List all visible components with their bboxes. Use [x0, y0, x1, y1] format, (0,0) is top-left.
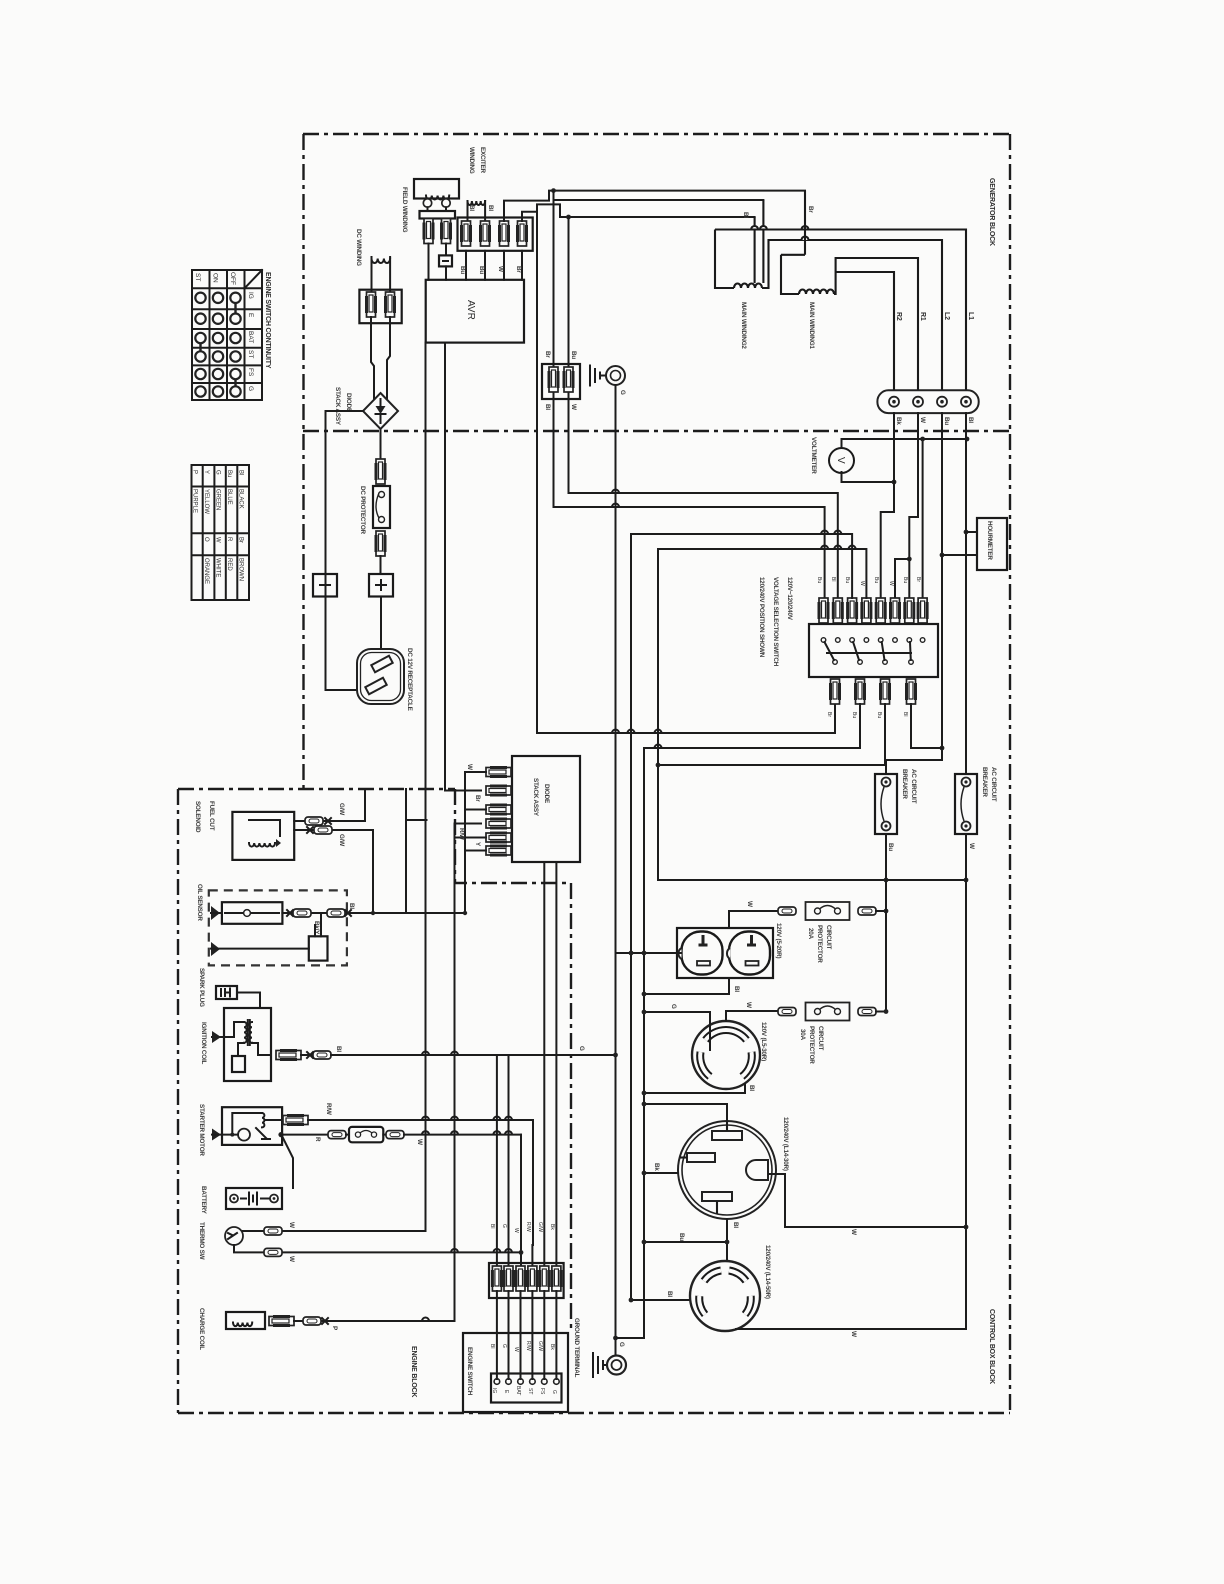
- node pin8: [920, 437, 925, 442]
- charge riser: [455, 824, 482, 1322]
- svg-text:Bu: Bu: [678, 1233, 685, 1241]
- L14-50 right wire: [736, 1328, 966, 1330]
- svg-text:W: W: [288, 1256, 295, 1262]
- wire color legend texts: [192, 470, 244, 584]
- oil sensor dashed box: [209, 890, 347, 965]
- svg-text:Bl: Bl: [733, 986, 740, 992]
- dc protector connector top: [376, 459, 385, 484]
- svg-text:ENGINE SWITCH: ENGINE SWITCH: [466, 1347, 473, 1396]
- wires to diode bridge: [371, 317, 374, 399]
- AC circuit breaker 2: [955, 774, 977, 834]
- DC 12V receptacle: [357, 649, 404, 704]
- bus B: [618, 748, 644, 1338]
- sense wire to selector pin1: [554, 191, 825, 598]
- svg-text:G: G: [619, 390, 626, 395]
- svg-text:ENGINE SWITCH CONTINUITY: ENGINE SWITCH CONTINUITY: [264, 272, 271, 369]
- svg-text:O: O: [203, 537, 209, 542]
- svg-text:Bl: Bl: [748, 1085, 755, 1091]
- sense drop third: [537, 212, 835, 733]
- kill drops: [496, 1055, 498, 1266]
- hourmeter stubs: [966, 531, 977, 533]
- svg-text:DIODE: DIODE: [543, 784, 550, 803]
- node thermo join: [519, 1250, 524, 1255]
- L14-50R top wire: [644, 1242, 727, 1262]
- wire brush2 to polarity box: [445, 244, 447, 256]
- L14-30 top wire: [644, 1104, 727, 1121]
- AC circuit breaker 1: [875, 774, 897, 834]
- engine block border left: [177, 789, 179, 1413]
- svg-text:FUEL CUT: FUEL CUT: [208, 801, 215, 831]
- field winding box: [414, 179, 459, 199]
- svg-text:BREAKER: BREAKER: [981, 767, 988, 797]
- svg-text:30A: 30A: [799, 1029, 806, 1041]
- terminal block box: [491, 1374, 562, 1403]
- svg-text:Bu: Bu: [873, 577, 879, 583]
- svg-text:MAIN WINDING1: MAIN WINDING1: [808, 302, 815, 349]
- svg-text:G/W: G/W: [537, 1341, 543, 1351]
- svg-text:W: W: [513, 1347, 519, 1352]
- diode stack pins: [486, 768, 511, 777]
- connector pin 4: [518, 221, 527, 246]
- svg-text:HOURMETER: HOURMETER: [986, 521, 993, 560]
- svg-text:Bl: Bl: [732, 1222, 739, 1228]
- duplex top wire to protector: [729, 911, 778, 928]
- svg-text:G: G: [618, 1342, 625, 1347]
- circuit protector 30A: [778, 1008, 796, 1016]
- mid connector pin B: [564, 367, 573, 392]
- svg-text:Bu: Bu: [876, 712, 882, 718]
- svg-text:BROWN: BROWN: [238, 558, 244, 581]
- connector wire labels: [489, 1222, 555, 1233]
- svg-text:Bk: Bk: [895, 417, 902, 425]
- svg-text:Bu: Bu: [844, 577, 850, 583]
- svg-text:W: W: [416, 1139, 423, 1145]
- wire hop bumps: [422, 490, 856, 1322]
- svg-text:Br: Br: [474, 795, 481, 802]
- node G merge: [613, 1336, 618, 1341]
- winding2 top edge = L1 wire: [715, 230, 966, 392]
- svg-text:120/240V (L14-50R): 120/240V (L14-50R): [764, 1245, 771, 1299]
- node L2 hourmeter: [940, 553, 945, 558]
- selector lower labels: [826, 712, 908, 718]
- L14-30 right wire: [769, 1174, 966, 1227]
- diode stack bottom drops: [543, 862, 545, 1266]
- starter fuse: [349, 1127, 383, 1142]
- svg-text:VOLTMETER: VOLTMETER: [810, 437, 817, 474]
- AVR second drop: [445, 343, 481, 791]
- voltmeter bottom wire: [842, 472, 895, 482]
- svg-text:W: W: [888, 581, 894, 586]
- svg-text:Bl: Bl: [468, 205, 475, 211]
- 4-pin connector box: [458, 218, 533, 251]
- svg-text:W: W: [850, 1229, 857, 1235]
- node sense1: [551, 188, 556, 193]
- terminal L1: [961, 397, 971, 407]
- solenoid coil: [249, 820, 280, 836]
- svg-text:IG: IG: [247, 292, 254, 299]
- selector top pins: [819, 598, 828, 623]
- svg-text:E: E: [247, 313, 254, 318]
- svg-text:Bu: Bu: [902, 577, 908, 583]
- svg-text:FIELD WINDING: FIELD WINDING: [401, 187, 408, 233]
- voltmeter top wire: [842, 439, 968, 449]
- svg-text:PROTECTOR: PROTECTOR: [808, 1026, 815, 1064]
- diode bridge diamond: [363, 393, 398, 429]
- L14-50 left wire: [629, 1298, 634, 1303]
- svg-text:ORANGE: ORANGE: [203, 558, 209, 584]
- node neutral loop: [656, 763, 661, 768]
- fuel jog wire: [405, 789, 407, 913]
- wire pin8 up: [922, 439, 924, 598]
- node breaker1 out: [884, 878, 889, 883]
- svg-text:R: R: [314, 1137, 321, 1142]
- svg-text:Bl: Bl: [238, 470, 244, 475]
- svg-text:CIRCUIT: CIRCUIT: [817, 1026, 824, 1050]
- ground terminal wire: [616, 1337, 645, 1339]
- duplex hot wire: [616, 952, 682, 954]
- selector bottom pins: [831, 679, 840, 704]
- starter relay out R/W: [266, 1119, 283, 1121]
- bus A 120V hot: [631, 534, 852, 1300]
- solenoid wire lower: [294, 829, 373, 831]
- svg-text:OFF: OFF: [229, 272, 236, 285]
- duplex socket left: [682, 932, 723, 975]
- polarity box: [439, 255, 452, 266]
- oil sensor inner unit: [222, 902, 283, 924]
- svg-text:GREEN: GREEN: [215, 489, 221, 510]
- ground terminal ring: [607, 1356, 626, 1375]
- svg-text:THERMO SW: THERMO SW: [198, 1222, 205, 1260]
- L14-30 bottom wire: [726, 1219, 728, 1242]
- selector contacts: [821, 638, 925, 665]
- voltmeter: [829, 448, 854, 473]
- svg-text:Bu: Bu: [478, 266, 485, 274]
- svg-text:ST: ST: [194, 273, 201, 281]
- svg-text:GENERATOR BLOCK: GENERATOR BLOCK: [988, 178, 995, 246]
- svg-text:ST: ST: [527, 1388, 533, 1394]
- svg-text:R2: R2: [895, 312, 902, 321]
- R drop to pin3: [520, 1135, 522, 1266]
- svg-text:W: W: [919, 417, 926, 423]
- svg-text:AVR: AVR: [465, 300, 476, 320]
- svg-text:Bl: Bl: [544, 404, 551, 410]
- wire color legend grid: [192, 465, 250, 600]
- svg-text:R/W: R/W: [325, 1103, 332, 1115]
- svg-text:W: W: [746, 901, 753, 907]
- hourmeter box: [977, 518, 1007, 570]
- wire pin3 up-over: [504, 191, 805, 221]
- exciter winding coil: [468, 201, 486, 205]
- L14-30 left wire: [644, 1172, 678, 1174]
- charge coil connector: [269, 1317, 294, 1326]
- svg-text:Bl: Bl: [489, 1224, 495, 1228]
- starter relay: [232, 1113, 262, 1134]
- svg-text:Br: Br: [915, 577, 921, 582]
- svg-text:BLUE: BLUE: [226, 489, 232, 505]
- svg-text:Bu: Bu: [943, 417, 950, 425]
- ground terminal symbol: [593, 1353, 607, 1377]
- svg-text:W: W: [745, 1002, 752, 1008]
- svg-text:Bu: Bu: [887, 843, 894, 851]
- wires pins to AVR: [465, 251, 467, 280]
- continuity table grid: [192, 270, 262, 400]
- neutral bus right drop: [965, 880, 967, 1329]
- terminal R2: [889, 397, 899, 407]
- node voltmeter/R2: [892, 480, 897, 485]
- winding2 body: [715, 230, 734, 289]
- diode stack assy box: [512, 756, 580, 862]
- oil sensor left arrow: [211, 906, 220, 920]
- wire bridge plus down: [380, 429, 382, 462]
- svg-text:Bl: Bl: [487, 205, 494, 211]
- svg-text:W: W: [850, 1331, 857, 1337]
- connector to terminal wires: [497, 1291, 557, 1379]
- svg-text:FS: FS: [247, 368, 254, 377]
- svg-text:Y: Y: [203, 470, 209, 474]
- outer dashed border bottom: [178, 1412, 1010, 1414]
- oil sensor lower arrow wire: [211, 942, 220, 956]
- node sense2: [566, 215, 571, 220]
- svg-text:STACK ASSY: STACK ASSY: [532, 778, 539, 817]
- wire selector pin3 left loop: [658, 704, 885, 765]
- svg-text:Bl: Bl: [489, 1344, 495, 1348]
- svg-text:DC PROTECTOR: DC PROTECTOR: [359, 486, 366, 535]
- svg-text:BLACK: BLACK: [238, 489, 244, 509]
- duplex socket right: [729, 932, 770, 975]
- thermo switch: [225, 1227, 243, 1245]
- svg-text:EXCITER: EXCITER: [479, 147, 486, 174]
- bus C neutral riser: [658, 549, 966, 880]
- continuity circles: [195, 293, 240, 397]
- svg-text:G: G: [501, 1344, 507, 1348]
- svg-text:W: W: [497, 266, 504, 272]
- breaker1 bottom wire: [885, 834, 887, 880]
- L5-30R receptacle: [692, 1021, 760, 1089]
- selector blades: [825, 642, 912, 660]
- solenoid wire upper: [294, 820, 365, 822]
- wire L1 down to breaker2: [965, 413, 967, 774]
- svg-text:PROTECTOR: PROTECTOR: [816, 925, 823, 963]
- svg-text:G: G: [551, 1390, 557, 1394]
- starter left lead: [212, 1129, 221, 1141]
- duplex receptacle outer: [677, 928, 773, 978]
- ignition out connector: [276, 1051, 301, 1060]
- generator+control outer dashed border top: [303, 133, 1010, 135]
- wire selector pin2 to busB: [644, 704, 860, 748]
- charge coil box: [226, 1312, 265, 1329]
- engine 6-pin connector box: [489, 1263, 564, 1298]
- wire bridge minus out: [326, 411, 364, 690]
- node L1/voltmeter: [965, 437, 970, 442]
- bridge diode glyph: [376, 406, 386, 414]
- DC winding connector box: [359, 290, 401, 324]
- svg-text:AC CIRCUIT: AC CIRCUIT: [990, 767, 997, 802]
- breaker2 bottom wire: [965, 834, 967, 880]
- svg-text:IGNITION COIL: IGNITION COIL: [200, 1022, 207, 1065]
- R/W drop to pin4: [531, 1120, 534, 1266]
- oil sensor out wire: [282, 912, 465, 914]
- svg-text:Bl: Bl: [335, 1046, 342, 1052]
- svg-text:W: W: [859, 581, 865, 586]
- svg-text:Bk: Bk: [549, 1344, 555, 1350]
- generator ground ring: [606, 366, 625, 385]
- spark plug wire: [237, 993, 260, 1009]
- outer dashed border left: [302, 134, 304, 789]
- protector riser: [885, 880, 887, 1012]
- battery diagonal: [282, 1136, 293, 1188]
- svg-text:WINDING: WINDING: [468, 147, 475, 174]
- svg-text:SPARK PLUG: SPARK PLUG: [198, 968, 205, 1007]
- svg-text:GROUND TERMINAL: GROUND TERMINAL: [573, 1318, 580, 1378]
- svg-text:G: G: [578, 1046, 585, 1051]
- svg-text:ST: ST: [247, 350, 254, 358]
- brush pin F2: [442, 219, 451, 244]
- node L1 hourmeter: [964, 530, 969, 535]
- DC connector pin 2: [386, 292, 395, 317]
- connector pin 3: [500, 221, 509, 246]
- svg-text:120V (L5-30R): 120V (L5-30R): [760, 1022, 767, 1061]
- DC winding coil: [372, 259, 391, 264]
- svg-text:Bl: Bl: [666, 1291, 673, 1297]
- L5 bottom wire: [644, 1084, 745, 1093]
- node L2 protector join: [940, 746, 945, 751]
- svg-text:CONTROL BOX BLOCK: CONTROL BOX BLOCK: [988, 1309, 995, 1384]
- svg-text:R/W: R/W: [525, 1341, 531, 1351]
- svg-text:R1: R1: [919, 312, 926, 321]
- mid 2-pin connector box: [542, 364, 580, 399]
- svg-text:BREAKER: BREAKER: [901, 769, 908, 799]
- svg-text:Bk: Bk: [549, 1224, 555, 1230]
- continuity links: [201, 303, 236, 386]
- spark plug: [216, 986, 237, 999]
- wire brush to AVR: [428, 244, 430, 280]
- svg-text:Bu: Bu: [459, 266, 466, 274]
- svg-text:R/W: R/W: [525, 1222, 531, 1232]
- svg-text:AC CIRCUIT: AC CIRCUIT: [910, 769, 917, 804]
- svg-text:P: P: [192, 470, 198, 474]
- continuity table texts: [194, 272, 254, 391]
- diode pin stubs: [465, 772, 486, 913]
- wire R2 to selector pin5: [881, 413, 894, 598]
- svg-text:Bl: Bl: [348, 903, 355, 909]
- main winding 2 outline: [754, 217, 756, 283]
- sense wire to selector pin2: [569, 217, 838, 598]
- AVR box: [426, 280, 524, 343]
- svg-text:Br: Br: [515, 266, 522, 273]
- lower wire labels: [489, 1341, 555, 1352]
- connector pin 2: [481, 221, 490, 246]
- brush pin F1: [424, 219, 433, 244]
- svg-text:Br: Br: [544, 351, 551, 358]
- svg-text:20A: 20A: [807, 928, 814, 940]
- outer dashed border right: [1009, 134, 1011, 1413]
- ignition coil windings: [244, 1022, 247, 1043]
- mid connector pin A: [549, 367, 558, 392]
- main winding 1: [781, 255, 799, 294]
- dc protector connector bottom: [376, 531, 385, 556]
- wire Y200 sense: [554, 199, 764, 201]
- wire polarity box to AVR: [445, 266, 447, 279]
- wire to plus box: [380, 556, 382, 574]
- thermo upper riser: [425, 343, 427, 1231]
- circuit protector 20A: [778, 907, 796, 915]
- DC connector pin 1: [367, 292, 376, 317]
- svg-text:Bu: Bu: [570, 351, 577, 359]
- ignition coil box: [224, 1008, 271, 1081]
- svg-text:OIL SENSOR: OIL SENSOR: [196, 884, 203, 921]
- thermo lower wire: [234, 1245, 521, 1252]
- svg-text:W: W: [570, 404, 577, 410]
- svg-text:WHITE: WHITE: [215, 558, 221, 577]
- svg-text:CIRCUIT: CIRCUIT: [825, 925, 832, 949]
- wire pin6 stub: [895, 559, 909, 598]
- node protector riser: [884, 909, 889, 914]
- svg-text:Bu: Bu: [816, 577, 822, 583]
- terminal R1: [913, 397, 923, 407]
- exciter wires to connector: [467, 201, 469, 221]
- svg-text:W: W: [466, 764, 473, 770]
- minus box: [313, 574, 337, 597]
- wire pin4 up-over: [522, 204, 755, 221]
- generator terminal strip: [877, 390, 978, 413]
- starter motor box: [222, 1107, 282, 1145]
- svg-text:G/W: G/W: [338, 834, 345, 846]
- L5 top wire: [726, 1011, 778, 1021]
- svg-text:120/240V POSITION SHOWN: 120/240V POSITION SHOWN: [758, 577, 765, 658]
- wire plus to receptacle: [380, 597, 382, 652]
- svg-text:DC WINDING: DC WINDING: [355, 229, 362, 266]
- ground bus G: [615, 385, 617, 1356]
- battery box: [226, 1188, 282, 1209]
- engine block border top: [178, 788, 455, 790]
- svg-text:ON: ON: [212, 273, 219, 283]
- svg-text:W: W: [288, 1222, 295, 1228]
- svg-text:W: W: [215, 537, 221, 543]
- svg-text:P: P: [331, 1326, 338, 1330]
- svg-text:IG: IG: [491, 1388, 497, 1393]
- svg-text:Br: Br: [826, 712, 832, 717]
- svg-text:VOLTAGE SELECTION SWITCH: VOLTAGE SELECTION SWITCH: [772, 577, 779, 667]
- R2 wire: [836, 272, 894, 391]
- node W recept: [964, 1225, 969, 1230]
- svg-text:Br: Br: [238, 537, 244, 543]
- voltage selector box: [809, 624, 938, 677]
- wire L2 down: [886, 413, 942, 774]
- svg-text:Bu: Bu: [226, 470, 232, 477]
- DC protector box: [373, 486, 390, 528]
- node pin6 join: [907, 557, 912, 562]
- svg-text:V: V: [835, 457, 846, 464]
- svg-text:FS: FS: [539, 1388, 545, 1395]
- svg-text:Bl: Bl: [902, 712, 908, 716]
- svg-text:Br: Br: [807, 206, 814, 213]
- svg-text:R: R: [226, 537, 232, 542]
- svg-text:DIODE: DIODE: [345, 393, 352, 412]
- svg-text:BATTERY: BATTERY: [200, 1186, 207, 1215]
- svg-text:Bk: Bk: [653, 1163, 660, 1171]
- generator ground symbol: [590, 366, 606, 386]
- svg-text:W: W: [513, 1228, 519, 1233]
- engine block border jog: [455, 789, 571, 1333]
- svg-text:BAT: BAT: [247, 331, 254, 343]
- engine switch solid box: [463, 1333, 568, 1412]
- svg-text:Bu: Bu: [851, 712, 857, 718]
- svg-text:Bl: Bl: [967, 417, 974, 423]
- svg-text:L1: L1: [967, 312, 974, 320]
- brush circles: [423, 199, 431, 207]
- svg-text:120/240V (L14-30R): 120/240V (L14-30R): [782, 1117, 789, 1171]
- svg-text:G/W: G/W: [338, 803, 345, 815]
